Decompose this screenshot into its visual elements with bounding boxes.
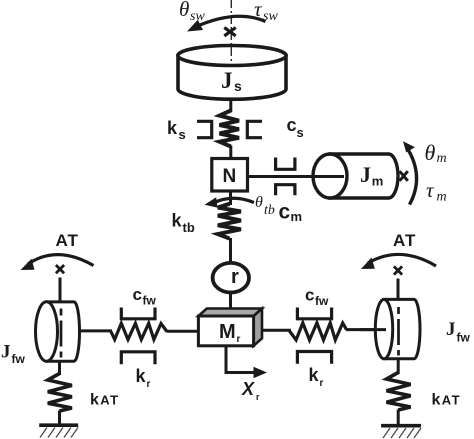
label J_fw left — [1, 342, 25, 367]
svg-text:fw: fw — [457, 331, 471, 345]
wire x mark to right wheel — [397, 279, 400, 301]
damper c_fw left lower bracket — [121, 352, 155, 365]
svg-text:X: X — [241, 379, 255, 399]
svg-text:r: r — [256, 392, 260, 402]
svg-text:θ: θ — [425, 140, 436, 165]
label c_s — [287, 115, 304, 140]
wire left wheel to tie rod spring — [78, 329, 112, 332]
rack mass M_r box front face — [198, 316, 253, 346]
tie rod spring k_r right — [290, 323, 347, 340]
wire right tie rod into hub — [360, 328, 386, 331]
label tau_m — [426, 178, 447, 205]
wire kAT to ground right — [397, 410, 400, 425]
label c_fw right — [305, 286, 329, 309]
wire rack to right tie rod — [262, 329, 291, 332]
wire k_tb to pinion — [229, 238, 232, 264]
wire tie rod to rack left — [167, 330, 199, 333]
wheel inertia J_fw right cylinder body — [384, 299, 420, 358]
svg-text:M: M — [219, 321, 236, 343]
svg-text:m: m — [372, 174, 384, 189]
wire N to torsion bar spring — [229, 191, 232, 205]
label k_s — [167, 118, 186, 142]
label k_r right — [309, 365, 324, 389]
svg-text:AT: AT — [442, 392, 461, 407]
svg-text:s: s — [297, 125, 304, 140]
damper c_m lower plate — [276, 185, 295, 196]
motor inertia J_m cylinder left ellipse — [313, 154, 347, 198]
right wheel rotation arrowhead — [361, 258, 375, 270]
label k_tb — [172, 211, 195, 236]
ground right bar — [381, 424, 421, 428]
svg-text:k: k — [432, 392, 441, 409]
motor rotation arrow arc — [407, 147, 417, 205]
svg-text:r: r — [231, 266, 239, 288]
steering axis x mark — [224, 28, 235, 36]
svg-text:tb: tb — [183, 220, 195, 235]
damper c_fw left upper bracket — [121, 308, 155, 319]
wire right tie rod to wheel — [346, 328, 386, 331]
wire N to motor shaft — [248, 175, 344, 178]
svg-text:AT: AT — [100, 392, 119, 407]
svg-text:AT: AT — [393, 231, 416, 250]
rack mass M_r box right face — [254, 309, 262, 346]
ground right hatching — [383, 428, 421, 438]
label theta_m — [425, 140, 447, 166]
torsion bar rotation arrow theta_tb arc — [212, 198, 254, 203]
spring kAT left — [48, 374, 72, 412]
right wheel rotation arrow arc — [368, 254, 436, 266]
inertia J_s cylinder top ellipse — [178, 46, 286, 66]
svg-text:J: J — [446, 319, 456, 340]
right wheel axis dash-dot — [397, 307, 400, 356]
label tau_sw — [254, 0, 278, 24]
wheel inertia J_fw left cylinder body — [47, 302, 80, 361]
svg-text:J: J — [1, 342, 11, 363]
motor rotation arrowhead — [403, 141, 415, 152]
label J_fw right — [446, 319, 470, 345]
svg-text:c: c — [133, 285, 142, 304]
svg-text:m: m — [291, 209, 303, 224]
pinion radius r circle — [213, 263, 249, 293]
damper c_s right bracket — [247, 121, 262, 137]
ground left hatching — [40, 428, 78, 438]
svg-text:k: k — [90, 392, 99, 409]
wire x mark to left wheel — [59, 278, 62, 304]
rack mass M_r box top face — [198, 309, 262, 317]
left wheel rotation arrowhead — [21, 259, 35, 270]
spring k_s — [220, 111, 240, 147]
wire J_s to spring k_s — [229, 99, 232, 113]
svg-text:k: k — [167, 118, 178, 138]
ground left bar — [39, 423, 78, 427]
svg-text:fw: fw — [143, 294, 157, 308]
damper c_m upper plate — [276, 158, 295, 170]
svg-text:c: c — [279, 201, 291, 224]
steering column dash-dot inside cylinder — [230, 47, 232, 62]
steering column center dash-dot line — [230, 0, 232, 62]
svg-text:fw: fw — [315, 294, 329, 308]
svg-text:s: s — [234, 78, 242, 94]
svg-text:r: r — [237, 334, 241, 345]
svg-text:fw: fw — [12, 352, 26, 366]
motor axis x mark — [400, 171, 408, 181]
spring kAT right — [387, 373, 411, 411]
label theta_sw — [179, 0, 205, 24]
label X_r — [241, 379, 260, 402]
svg-text:tb: tb — [264, 203, 275, 218]
rack displacement arrowhead X_r — [254, 367, 268, 378]
label c_m — [279, 201, 303, 225]
svg-text:AT: AT — [56, 231, 79, 250]
wire pinion to rack — [229, 293, 232, 317]
label theta_tb — [255, 194, 275, 218]
svg-text:N: N — [223, 166, 237, 187]
label c_fw left — [133, 285, 157, 308]
svg-text:c: c — [305, 286, 314, 305]
tie rod spring k_r left — [111, 323, 167, 339]
label J_m — [360, 162, 383, 189]
spring k_tb — [218, 204, 241, 239]
svg-text:r: r — [147, 379, 151, 390]
svg-text:r: r — [320, 378, 324, 389]
svg-text:m: m — [437, 151, 447, 166]
label kAT left — [90, 392, 119, 409]
svg-text:k: k — [172, 211, 183, 231]
left wheel rotation arrow arc — [28, 255, 94, 266]
label M_r — [219, 321, 241, 345]
wheel inertia J_fw right ellipse — [375, 299, 392, 358]
damper c_fw right upper bracket — [297, 308, 331, 319]
gearbox N box — [212, 159, 248, 192]
svg-text:θ: θ — [255, 194, 263, 211]
wire kAT to ground left — [58, 411, 61, 425]
left wheel axis x mark — [56, 265, 64, 273]
left wheel axis dash-dot — [60, 309, 63, 358]
svg-text:k: k — [136, 366, 147, 386]
wire right wheel to spring kAT — [397, 359, 400, 374]
wheel inertia J_fw left ellipse — [36, 302, 58, 361]
wire left wheel to spring kAT — [58, 361, 61, 375]
label k_r left — [136, 366, 151, 390]
svg-text:s: s — [179, 127, 186, 142]
damper c_fw right lower bracket — [297, 352, 331, 364]
torsion bar rotation arrowhead — [205, 197, 218, 207]
wire rack displacement — [226, 346, 255, 373]
label J_s — [221, 68, 242, 94]
right wheel axis x mark — [394, 266, 402, 274]
steering rotation arrowhead — [187, 20, 203, 32]
svg-text:c: c — [287, 115, 297, 135]
svg-text:m: m — [437, 190, 447, 205]
svg-text:k: k — [309, 365, 320, 385]
wire spring k_s to gearbox N — [229, 146, 232, 160]
inertia J_s cylinder body — [178, 56, 286, 100]
label kAT right — [432, 392, 461, 409]
steering rotation arrow arc — [194, 16, 266, 27]
damper c_s left bracket — [197, 121, 212, 137]
svg-text:J: J — [221, 68, 233, 93]
motor inertia J_m cylinder body — [330, 154, 398, 198]
svg-text:J: J — [360, 162, 371, 187]
svg-text:θ: θ — [179, 0, 189, 21]
